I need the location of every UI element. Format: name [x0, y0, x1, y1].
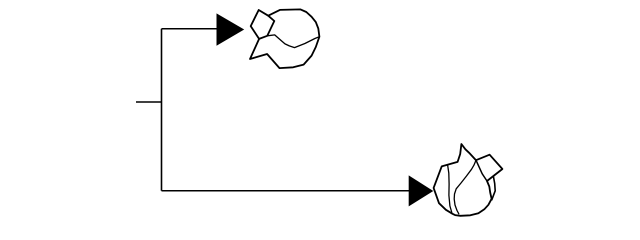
part crease: top internal line — [267, 35, 319, 48]
part outline: top mirror body — [250, 9, 319, 68]
wire: left tick stub — [136, 101, 162, 103]
part outline: bottom right outer bulge — [492, 176, 495, 199]
wire: bottom horizontal leader — [162, 190, 410, 192]
wire: vertical bracket line — [161, 29, 163, 191]
part crease: bottom inner kidney line — [454, 160, 476, 214]
wire: top horizontal leader — [162, 28, 218, 30]
part flag: bottom small quad closing edge — [476, 160, 487, 181]
arrow: top arrowhead — [217, 13, 245, 45]
part outline: bottom mirror body — [434, 144, 503, 216]
part flag: top small quad — [251, 10, 275, 39]
part crease: bottom left inner line — [448, 165, 452, 213]
arrow: bottom arrowhead — [409, 175, 434, 206]
